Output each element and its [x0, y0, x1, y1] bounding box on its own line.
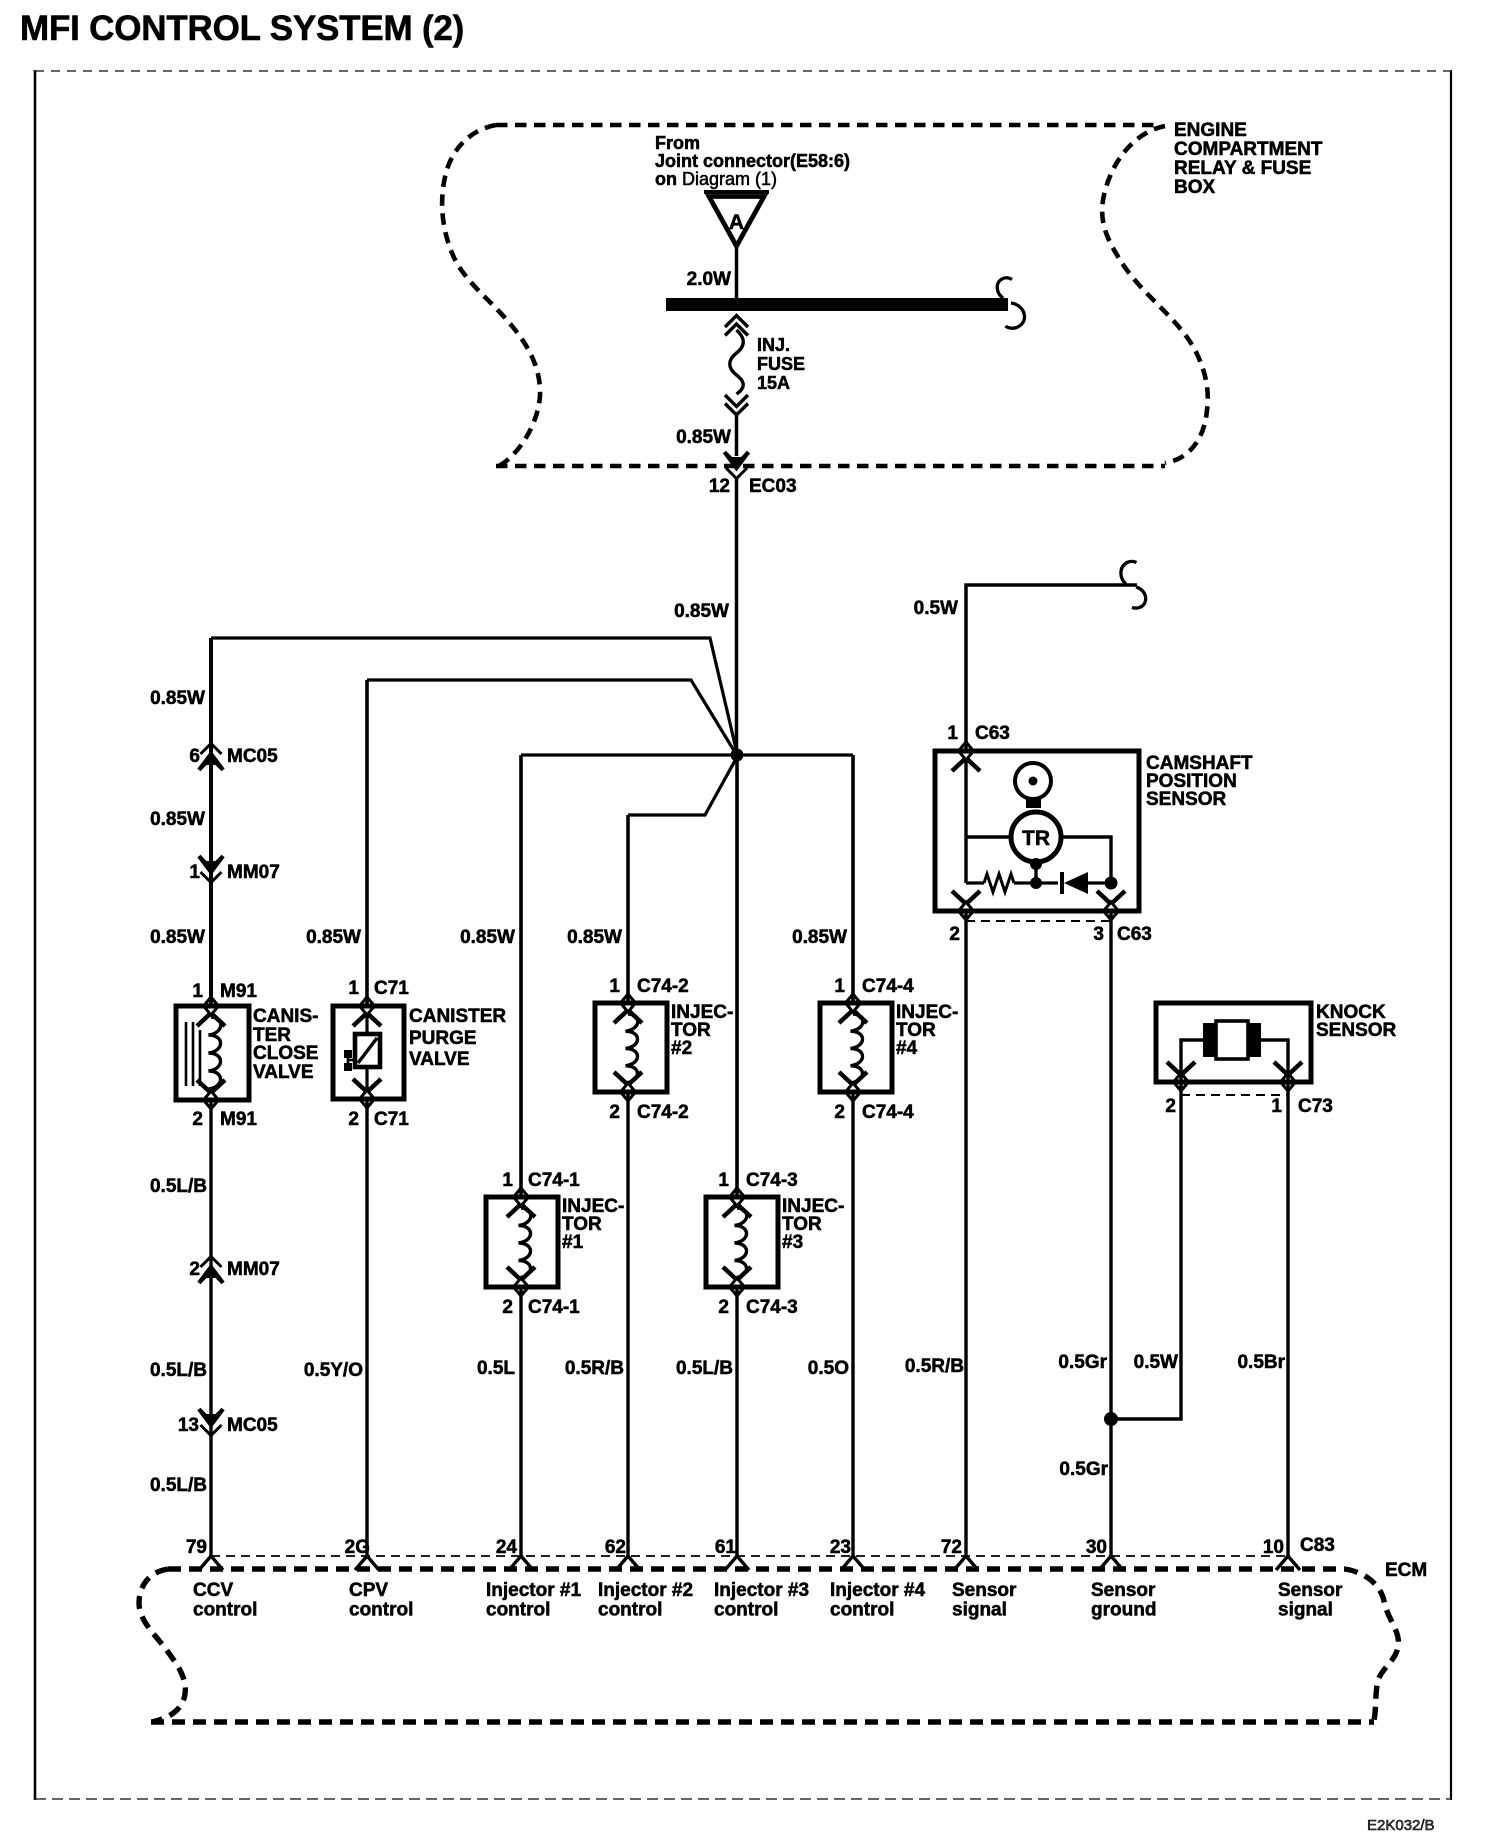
connector C71 pin 2: [360, 1090, 375, 1108]
connector C74-3 pin 1: [718, 1170, 797, 1191]
svg-text:72: 72: [941, 1537, 962, 1558]
ECM pin 2G (CPV control): [355, 1556, 379, 1570]
connector C74-2 pin 1: [609, 976, 688, 997]
svg-text:1: 1: [189, 862, 200, 883]
connector C71 pin 1: [348, 978, 409, 999]
wire: injector #1 branch vertical, 0.85W: [519, 755, 523, 1197]
svg-text:0.5L/B: 0.5L/B: [150, 1360, 207, 1381]
svg-text:Injector #2: Injector #2: [598, 1580, 693, 1601]
svg-text:15A: 15A: [757, 373, 790, 393]
svg-text:SENSOR: SENSOR: [1146, 789, 1227, 810]
ECM pin 62 (Injector #2 control): [616, 1556, 640, 1570]
wire: EC03 to junction node, 0.85W: [735, 478, 739, 755]
wire: branch to injector #2 (x=628): [628, 757, 737, 815]
svg-text:2.0W: 2.0W: [687, 269, 731, 290]
triangle connector A (from joint connector): [704, 192, 769, 246]
label: INJEC- TOR #3: [782, 1196, 844, 1253]
svg-text:CCV: CCV: [193, 1580, 233, 1601]
svg-text:0.85W: 0.85W: [676, 427, 731, 448]
svg-text:0.5Gr: 0.5Gr: [1059, 1459, 1108, 1480]
svg-text:From: From: [655, 133, 700, 153]
svg-text:E2K032/B: E2K032/B: [1367, 1817, 1435, 1834]
svg-text:C83: C83: [1300, 1535, 1335, 1556]
svg-text:C74-1: C74-1: [528, 1170, 580, 1191]
wire: branch to injector #1 (x=521): [521, 753, 737, 756]
svg-text:C63: C63: [1117, 924, 1152, 945]
svg-text:30: 30: [1086, 1537, 1107, 1558]
connector MC05 pin 6 (up): [201, 744, 222, 755]
svg-text:C74-4: C74-4: [862, 976, 914, 997]
ECM pin 72 (Sensor signal): [954, 1556, 978, 1570]
injector #2 (box C74-2): [595, 1003, 667, 1092]
fuse: INJ. FUSE 15A: [725, 316, 748, 416]
svg-text:1: 1: [947, 723, 958, 744]
wire: C74-3 to ECM, 0.5L/B: [735, 1287, 738, 1556]
svg-text:0.5R/B: 0.5R/B: [905, 1356, 964, 1377]
ECM pin 10 C83 (Sensor signal): [1276, 1556, 1300, 1570]
label: INJEC- TOR #2: [671, 1002, 733, 1059]
wire: camshaft sensor supply 0.5W with pigtail: [966, 585, 1137, 751]
svg-text:#1: #1: [562, 1232, 584, 1253]
injector #3 (box C74-3): [706, 1197, 778, 1287]
svg-text:1: 1: [502, 1170, 513, 1191]
label: INJEC- TOR #4: [896, 1002, 958, 1059]
camshaft internal diode: [1060, 872, 1064, 894]
svg-text:signal: signal: [1278, 1600, 1333, 1621]
connector C74-4 pin 1: [834, 976, 914, 997]
svg-text:M91: M91: [220, 981, 257, 1002]
svg-text:C74-3: C74-3: [746, 1297, 798, 1318]
svg-text:0.85W: 0.85W: [567, 927, 622, 948]
svg-text:79: 79: [186, 1537, 207, 1558]
canister purge valve (box C71): [333, 1006, 404, 1099]
svg-text:C73: C73: [1298, 1096, 1333, 1117]
svg-text:2: 2: [609, 1102, 620, 1123]
node: TR emitter junction: [1030, 877, 1042, 889]
svg-text:MM07: MM07: [227, 862, 280, 883]
svg-text:0.85W: 0.85W: [792, 927, 847, 948]
svg-text:61: 61: [715, 1537, 737, 1558]
svg-text:control: control: [830, 1600, 894, 1621]
svg-text:CPV: CPV: [349, 1580, 388, 1601]
ECM pin 24 (Injector #1 control): [509, 1556, 533, 1570]
wire: C74-1 to ECM, 0.5L: [519, 1287, 522, 1556]
svg-text:24: 24: [496, 1537, 518, 1558]
svg-text:Injector #4: Injector #4: [830, 1580, 925, 1601]
svg-text:2: 2: [1165, 1096, 1176, 1117]
camshaft position sensor (box C63): [935, 751, 1139, 911]
svg-text:0.5Gr: 0.5Gr: [1058, 1352, 1107, 1373]
svg-text:CANISTER: CANISTER: [409, 1006, 506, 1027]
connector MC05 pin 13 (down): [201, 1425, 222, 1436]
svg-text:C63: C63: [975, 723, 1010, 744]
svg-text:Joint connector(E58:6): Joint connector(E58:6): [655, 151, 850, 171]
wire: CCV branch vertical upper segment, 0.85W: [209, 638, 213, 1006]
knock sensor (box C73): [1156, 1003, 1311, 1082]
wire: C73 pin 1 to ECM, 0.5Br: [1286, 1082, 1289, 1556]
svg-text:#3: #3: [782, 1232, 803, 1253]
injector #3 coil: [735, 1208, 747, 1278]
svg-text:2: 2: [502, 1297, 513, 1318]
svg-text:CANIS-: CANIS-: [253, 1006, 318, 1027]
svg-text:C71: C71: [374, 978, 409, 999]
svg-text:MC05: MC05: [227, 746, 278, 767]
svg-text:2: 2: [189, 1259, 200, 1280]
wire: injector #4 branch vertical, 0.85W: [851, 755, 855, 1003]
svg-text:1: 1: [834, 976, 845, 997]
svg-text:control: control: [598, 1600, 662, 1621]
canister close valve (box M91): [176, 1006, 249, 1100]
ECM pin 61 (Injector #3 control): [725, 1556, 749, 1570]
svg-text:ENGINE: ENGINE: [1174, 120, 1247, 141]
label: INJEC- TOR #1: [562, 1196, 624, 1253]
svg-text:A: A: [729, 211, 744, 234]
canister close valve core bars: [186, 1022, 200, 1086]
connector M91 pin 1: [192, 981, 257, 1002]
svg-text:MM07: MM07: [227, 1259, 280, 1280]
connector C74-1 pin 2: [514, 1278, 529, 1296]
svg-text:23: 23: [830, 1537, 851, 1558]
svg-text:VALVE: VALVE: [253, 1062, 314, 1083]
camshaft sensor pickup (circle with dot): [1015, 763, 1051, 799]
svg-text:EC03: EC03: [749, 476, 797, 497]
wire: CPV branch vertical, 0.85W: [365, 680, 369, 1006]
svg-text:control: control: [349, 1600, 413, 1621]
svg-text:0.5Y/O: 0.5Y/O: [304, 1360, 363, 1381]
svg-text:RELAY & FUSE: RELAY & FUSE: [1174, 158, 1311, 179]
svg-text:2: 2: [949, 924, 960, 945]
connector MM07 pin 2 (up): [201, 1257, 222, 1268]
svg-text:M91: M91: [220, 1109, 257, 1130]
svg-text:C74-2: C74-2: [637, 976, 689, 997]
ECM pin 23 (Injector #4 control): [841, 1556, 865, 1570]
junction node: sensor ground join: [1104, 1412, 1118, 1426]
svg-text:VALVE: VALVE: [409, 1049, 470, 1070]
label: CAMSHAFT POSITION SENSOR: [1146, 753, 1253, 810]
svg-text:0.5W: 0.5W: [914, 598, 958, 619]
svg-text:10: 10: [1263, 1537, 1284, 1558]
svg-text:0.5L/B: 0.5L/B: [150, 1475, 207, 1496]
engine compartment relay & fuse box (dashed outline): [442, 125, 1208, 466]
wire: C63 pin 3 to ECM, 0.5Gr: [1109, 911, 1112, 1556]
wire: C71 to ECM, 0.5Y/O: [365, 1099, 368, 1556]
svg-text:C74-1: C74-1: [528, 1297, 580, 1318]
svg-text:1: 1: [192, 981, 203, 1002]
svg-text:2: 2: [192, 1109, 203, 1130]
canister close valve coil: [209, 1017, 221, 1089]
svg-text:C74-4: C74-4: [862, 1102, 914, 1123]
wire: main vertical to injector #3: [735, 755, 739, 1197]
svg-text:MFI CONTROL SYSTEM (2): MFI CONTROL SYSTEM (2): [20, 9, 464, 48]
wire: C74-2 to ECM, 0.5R/B: [626, 1092, 629, 1556]
svg-text:0.5L/B: 0.5L/B: [676, 1358, 733, 1379]
camshaft sensor transistor TR: [1011, 812, 1061, 862]
camshaft internal resistor: [966, 881, 984, 884]
connector C63 pins 2 and 3: [959, 902, 974, 920]
node: diode cathode junction: [1105, 877, 1118, 890]
svg-text:2: 2: [718, 1297, 729, 1318]
svg-text:0.85W: 0.85W: [460, 927, 515, 948]
junction node (power distribution): [731, 749, 744, 762]
svg-text:BOX: BOX: [1174, 177, 1216, 198]
svg-text:control: control: [714, 1600, 778, 1621]
injector #1 (box C74-1): [486, 1197, 558, 1287]
connector C74-1 pin 1: [502, 1170, 580, 1191]
svg-text:COMPARTMENT: COMPARTMENT: [1174, 139, 1323, 160]
svg-text:0.5O: 0.5O: [808, 1358, 849, 1379]
connector EC03 pin 12: [726, 468, 747, 479]
camshaft internal wires: [964, 758, 967, 883]
connector C74-2 pin 2: [621, 1083, 636, 1101]
wire: C74-4 to ECM, 0.5O: [851, 1092, 854, 1556]
svg-text:0.5Br: 0.5Br: [1237, 1352, 1285, 1373]
svg-text:13: 13: [178, 1415, 199, 1436]
svg-text:C74-2: C74-2: [637, 1102, 689, 1123]
injector #4 coil: [851, 1014, 863, 1083]
wire: branch to injector #4 (x=853): [737, 753, 853, 756]
svg-text:62: 62: [605, 1537, 626, 1558]
svg-text:INJ.: INJ.: [757, 335, 790, 355]
label: CANISTER PURGE VALVE: [409, 1006, 506, 1070]
svg-text:Sensor: Sensor: [1278, 1580, 1343, 1601]
svg-text:C71: C71: [374, 1109, 409, 1130]
svg-text:0.85W: 0.85W: [150, 809, 205, 830]
wire: C73 pin 2 to ground junction, 0.5W: [1111, 1082, 1181, 1419]
knock sensor piezo element: [1216, 1021, 1248, 1059]
svg-text:Injector #1: Injector #1: [486, 1580, 581, 1601]
svg-text:control: control: [486, 1600, 550, 1621]
wire: branch to CPV (x=367): [367, 680, 736, 754]
svg-text:0.85W: 0.85W: [150, 927, 205, 948]
svg-text:CLOSE: CLOSE: [253, 1043, 318, 1064]
wire: M91 to MM07, 0.5L/B: [209, 1100, 212, 1556]
svg-text:FUSE: FUSE: [757, 354, 805, 374]
ECM pin 30 (Sensor ground): [1099, 1556, 1123, 1570]
svg-text:0.5R/B: 0.5R/B: [565, 1358, 624, 1379]
svg-text:2G: 2G: [345, 1537, 370, 1558]
svg-text:1: 1: [1271, 1096, 1282, 1117]
connector C74-4 pin 2: [846, 1083, 861, 1101]
injector #1 coil: [519, 1208, 531, 1278]
svg-text:ECM: ECM: [1385, 1560, 1427, 1581]
connector C74-3 pin 2: [730, 1278, 745, 1296]
svg-text:3: 3: [1093, 924, 1104, 945]
svg-text:12: 12: [709, 476, 730, 497]
ECM connector row (thin dashed): [211, 1555, 1288, 1557]
bus bar (thick) with pigtail hook: [666, 298, 1008, 311]
svg-text:Sensor: Sensor: [952, 1580, 1017, 1601]
label: CANIS- TER CLOSE VALVE: [253, 1006, 318, 1083]
svg-text:6: 6: [189, 746, 200, 767]
injector #2 coil: [626, 1014, 638, 1083]
label: ENGINE COMPARTMENT RELAY & FUSE BOX: [1174, 120, 1323, 198]
connector M91 pin 2: [204, 1091, 219, 1109]
wire: branch to CCV (x=211): [211, 638, 737, 753]
svg-text:on Diagram (1): on Diagram (1): [655, 169, 777, 189]
svg-text:0.85W: 0.85W: [306, 927, 361, 948]
wire: fuse to EC03, 0.85W: [735, 412, 739, 456]
svg-text:MC05: MC05: [227, 1415, 278, 1436]
svg-text:TR: TR: [1022, 827, 1050, 850]
svg-text:control: control: [193, 1600, 257, 1621]
label: KNOCK SENSOR: [1316, 1002, 1397, 1041]
knock sensor internal wires: [1181, 1040, 1203, 1082]
svg-text:Injector #3: Injector #3: [714, 1580, 809, 1601]
connector C63 pin 1: [947, 723, 1009, 744]
svg-text:C74-3: C74-3: [746, 1170, 798, 1191]
ECM box (thick dashed outline): [139, 1569, 1398, 1722]
svg-text:PURGE: PURGE: [409, 1028, 477, 1049]
connector MM07 pin 1 (down): [201, 872, 222, 883]
injector #4 (box C74-4): [820, 1003, 892, 1092]
svg-text:2: 2: [834, 1102, 845, 1123]
note: From Joint connector(E58:6) on Diagram (1): [655, 133, 850, 189]
wire: triangle A to bus bar, 2.0W: [735, 246, 739, 298]
svg-text:0.5L/B: 0.5L/B: [150, 1176, 207, 1197]
svg-text:0.85W: 0.85W: [674, 601, 729, 622]
svg-text:1: 1: [348, 978, 359, 999]
connector C73 pins 2 and 1: [1174, 1073, 1189, 1091]
svg-text:signal: signal: [952, 1600, 1007, 1621]
svg-text:1: 1: [609, 976, 620, 997]
svg-text:SENSOR: SENSOR: [1316, 1020, 1397, 1041]
ECM pin 79 (CCV control): [199, 1556, 223, 1570]
svg-text:1: 1: [718, 1170, 729, 1191]
svg-text:Sensor: Sensor: [1091, 1580, 1156, 1601]
svg-text:#2: #2: [671, 1038, 692, 1059]
svg-text:#4: #4: [896, 1038, 918, 1059]
wire: C63 pin 2 to ECM, 0.5R/B: [964, 911, 967, 1556]
svg-text:2: 2: [348, 1109, 359, 1130]
svg-text:ground: ground: [1091, 1600, 1156, 1621]
canister purge valve internals: wire, valve rect with diagonal, actuator: [365, 1015, 368, 1034]
svg-text:0.85W: 0.85W: [150, 688, 205, 709]
svg-text:0.5L: 0.5L: [477, 1358, 515, 1379]
svg-text:0.5W: 0.5W: [1134, 1352, 1178, 1373]
wire: injector #2 branch vertical, 0.85W: [626, 815, 630, 1003]
